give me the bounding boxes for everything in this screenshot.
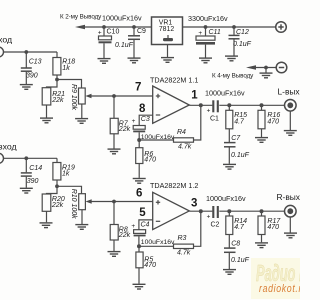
svg-text:R10 100k: R10 100k [70,189,77,219]
svg-text:C14: C14 [29,165,42,172]
svg-text:4.7: 4.7 [234,224,245,231]
svg-text:R3: R3 [178,235,187,242]
svg-text:0.1uF: 0.1uF [233,41,252,48]
svg-text:4.7k: 4.7k [178,143,192,150]
svg-text:4.7: 4.7 [234,119,245,126]
svg-text:К 2-му Выводу: К 2-му Выводу [60,14,102,21]
svg-text:390: 390 [27,178,39,185]
svg-text:1k: 1k [62,171,70,178]
svg-text:вход: вход [0,141,17,151]
svg-text:C9: C9 [137,28,146,35]
svg-text:100uFx16v: 100uFx16v [141,239,175,246]
svg-text:C3: C3 [141,116,150,123]
svg-text:+: + [207,108,211,115]
svg-text:+: + [207,214,211,221]
svg-text:TDA2822M 1.1: TDA2822M 1.1 [150,76,198,85]
svg-text:0.1uF: 0.1uF [231,152,250,159]
svg-text:0.1uF: 0.1uF [115,42,134,49]
svg-text:К 4-му Выводу: К 4-му Выводу [212,73,254,80]
svg-text:3: 3 [191,198,197,210]
svg-text:470: 470 [267,224,279,231]
svg-text:22k: 22k [51,202,64,209]
svg-text:C4: C4 [141,221,150,228]
svg-text:390: 390 [26,73,38,80]
svg-text:C2: C2 [211,221,220,228]
svg-text:+: + [131,223,135,230]
svg-text:C7: C7 [231,135,241,142]
svg-text:7812: 7812 [159,26,174,33]
svg-text:22k: 22k [118,126,131,133]
svg-text:R-вых: R-вых [277,192,301,202]
svg-text:+: + [132,118,136,125]
svg-text:1: 1 [191,90,198,102]
svg-text:вход: вход [0,35,12,45]
svg-text:R4: R4 [177,129,186,136]
svg-text:C13: C13 [29,59,42,66]
svg-text:C1: C1 [210,116,219,123]
svg-text:470: 470 [144,262,156,269]
svg-text:7: 7 [135,82,141,94]
svg-text:+: + [98,29,102,36]
svg-text:C10: C10 [107,29,120,36]
svg-text:0.1uF: 0.1uF [231,257,250,264]
svg-text:5: 5 [139,207,146,219]
svg-text:22k: 22k [51,97,64,104]
svg-text:470: 470 [144,157,156,164]
svg-text:radiokot.r: radiokot.r [259,283,300,295]
svg-text:TDA2822M 1.2: TDA2822M 1.2 [150,181,198,190]
svg-text:L-вых: L-вых [278,87,301,97]
svg-text:Радио Кот: Радио Кот [256,260,300,286]
svg-text:C8: C8 [231,241,240,248]
svg-text:470: 470 [267,119,279,126]
svg-text:R9 100k: R9 100k [70,84,77,111]
svg-text:8: 8 [139,103,146,115]
svg-text:4.7k: 4.7k [177,250,191,257]
svg-text:3300uFx16v: 3300uFx16v [188,14,228,23]
svg-text:C11: C11 [209,29,221,36]
svg-text:1000uFx16v: 1000uFx16v [205,89,245,98]
svg-text:1000uFx16v: 1000uFx16v [102,14,142,23]
svg-text:1k: 1k [62,65,70,72]
svg-text:6: 6 [136,188,142,200]
svg-text:22k: 22k [118,232,131,239]
svg-text:1000uFx16v: 1000uFx16v [206,194,246,203]
